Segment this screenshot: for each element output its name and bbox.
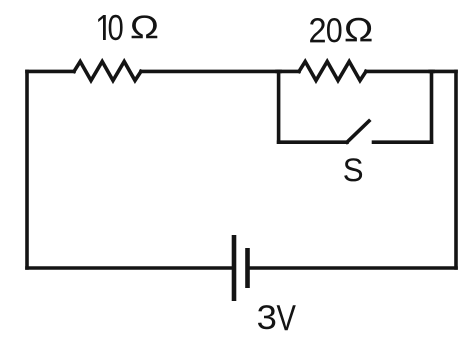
wire top segment right of R2: [366, 70, 432, 74]
wire top-left segment: [27, 70, 74, 74]
value label 10 ohm for R1: [98, 15, 157, 40]
battery B1 short plate (negative): [245, 248, 250, 288]
wire parallel-branch right vertical: [430, 71, 434, 142]
switch label S: [344, 158, 362, 181]
wire right vertical outer: [454, 71, 458, 268]
wire top-right segment: [432, 70, 457, 74]
wire parallel-branch left vertical: [277, 71, 281, 142]
wire switch branch left segment: [279, 140, 347, 144]
battery value label 3V: [258, 305, 296, 330]
wire switch branch right segment: [374, 140, 432, 144]
battery B1 long plate (positive): [232, 235, 237, 301]
value label 20 ohm for R2: [310, 18, 372, 43]
wire left vertical: [25, 71, 29, 268]
wire top segment between junction and R2: [279, 70, 299, 74]
node junction top-left of parallel branch: [277, 70, 280, 74]
node junction top-right of parallel branch: [430, 70, 433, 74]
resistor R1 10ohm: [74, 62, 141, 81]
wire bottom-right segment: [248, 266, 457, 270]
wire top-middle segment: [141, 70, 279, 74]
wire bottom-left segment: [27, 266, 234, 270]
switch S blade (open): [347, 121, 369, 142]
resistor R2 20ohm: [299, 62, 366, 81]
